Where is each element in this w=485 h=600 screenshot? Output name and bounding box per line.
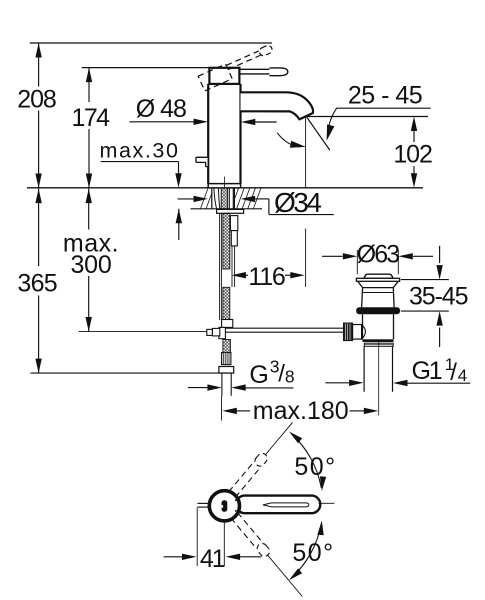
svg-text:116: 116 — [248, 263, 285, 291]
side port opening arc — [362, 325, 366, 340]
drain flange rim — [356, 278, 399, 281]
35-45 arrow down — [436, 265, 442, 280]
dimension 102 vertical — [413, 131, 415, 142]
max.180 right line — [350, 410, 365, 412]
G1 1/4 left tail — [325, 382, 349, 384]
ref line: spout outlet level — [306, 116, 428, 118]
35-45 arrow up — [436, 311, 442, 326]
drain washer ring — [364, 343, 393, 346]
drain cap dome — [364, 274, 393, 278]
braided hose segment 2 — [223, 287, 230, 319]
G3/8 left tail — [188, 387, 209, 389]
dimension 174 vertical line — [88, 68, 90, 102]
svg-text:50°: 50° — [292, 539, 334, 567]
max.180 arrow right-pointing — [364, 408, 379, 414]
rod connector sleeve — [219, 327, 226, 338]
ext line: spout outlet upper segment — [305, 117, 307, 189]
drain O-ring seal — [356, 307, 400, 314]
tailpipe left wall — [363, 346, 365, 392]
drain upper body — [362, 288, 395, 308]
svg-text:Ø63: Ø63 — [357, 241, 400, 269]
svg-text:41: 41 — [200, 545, 225, 573]
drain lower body — [363, 314, 394, 339]
tailpipe right wall — [392, 346, 394, 392]
lever shaft solid — [239, 68, 271, 70]
counter bottom line — [191, 208, 263, 210]
Ø63 left tail — [322, 255, 343, 257]
counter hatching left of hole — [201, 188, 209, 209]
centerline tick right of lever tip — [319, 502, 335, 504]
knurled hose fitting — [222, 353, 231, 365]
upper arc arrowhead at diagonal — [289, 432, 302, 444]
25-45 underline — [336, 107, 430, 109]
pop-up rod knob — [196, 157, 208, 166]
max.180 left line — [237, 410, 251, 412]
spout — [241, 92, 314, 119]
41 arrow left-pointing — [226, 554, 241, 560]
dimension max.300 vertical line — [88, 189, 90, 230]
Ø63 arrow right-pointing — [343, 253, 358, 259]
G3/8 tube right wall — [230, 373, 232, 396]
Ø63 right tail — [413, 255, 433, 257]
horizontal pop-up rod bottom line — [225, 331, 343, 333]
max.30 underline — [101, 161, 179, 163]
top view rod stub left — [198, 502, 213, 504]
braided hose segment 1 — [223, 213, 230, 269]
rod end piece — [207, 329, 213, 335]
top view cartridge slot — [222, 500, 228, 512]
41 right tail — [240, 556, 262, 558]
116 arrow right-pointing — [290, 272, 305, 278]
41 arrow right-pointing — [182, 554, 197, 560]
ref line: pop-up rod level (max.300) — [79, 331, 207, 333]
25-45 leader curve — [328, 108, 337, 132]
pop-up rod right line — [220, 213, 222, 320]
side port body — [353, 325, 362, 340]
Ø63 ext line left — [356, 250, 358, 274]
lower 50deg arc arrow — [292, 524, 322, 578]
Ø48 leader line left — [129, 121, 195, 123]
25-45 leader arrowhead — [327, 124, 335, 140]
drain centerline — [378, 341, 380, 415]
max.30 vertical to counter — [178, 162, 180, 174]
flex hoses inside shank — [214, 188, 217, 209]
41 ext line left (rod tip) — [196, 508, 198, 567]
35-45 vertical upper — [439, 246, 441, 263]
Ø34 underline — [269, 214, 334, 216]
svg-text:300: 300 — [70, 251, 111, 279]
dimension 365 vertical line — [38, 189, 40, 266]
G3/8 label underline — [246, 387, 294, 389]
ext line: spout outlet lower segment — [305, 229, 307, 287]
faucet head — [209, 68, 239, 84]
upper 50deg arc arrow — [292, 434, 322, 488]
35-45 upper ref line — [401, 279, 449, 281]
41 left tail — [164, 556, 183, 558]
G3/8 arrow left-pointing — [231, 384, 246, 390]
max.30 arrow down at counter top — [175, 173, 181, 188]
mounting nut — [217, 209, 244, 213]
extension line to max.180 — [221, 396, 223, 421]
svg-text:Ø 48: Ø 48 — [136, 95, 186, 123]
svg-text:G1: G1 — [412, 357, 442, 385]
top view lever inner slot — [263, 503, 309, 507]
116 arrow left-pointing — [231, 272, 246, 278]
braided hose section in shank — [221, 188, 227, 209]
Ø48 tail line right side — [255, 121, 277, 123]
lower arc arrowhead at centerline — [317, 521, 323, 536]
top view lever — [236, 496, 320, 514]
lower arc arrowhead at diagonal — [289, 568, 302, 580]
upper arc arrowhead at centerline — [320, 476, 326, 491]
rod guide line in shank — [228, 188, 230, 209]
arc arrowhead at stream line — [290, 141, 306, 148]
Ø48 arrow left-pointing at body right edge — [241, 119, 256, 125]
Ø63 ext line right — [397, 250, 399, 274]
arrow up 365 — [35, 189, 41, 204]
counter hole left edge — [211, 188, 213, 209]
ref line: top of raised lever (208 dim) — [30, 42, 272, 44]
rod connector block — [212, 328, 219, 336]
arrow up 208 — [35, 43, 41, 58]
horizontal pop-up rod top line — [225, 327, 343, 329]
svg-text:G: G — [249, 361, 268, 389]
svg-text:max.30: max.30 — [99, 138, 179, 162]
braided hose segment 3 — [223, 340, 231, 353]
drain body bottom band — [363, 339, 394, 342]
rod clamp block — [222, 320, 233, 328]
svg-text:35-45: 35-45 — [409, 282, 468, 310]
Ø63 arrow left-pointing — [398, 253, 413, 259]
drain flange taper — [358, 281, 399, 287]
Ø34 right tail — [255, 198, 269, 200]
faucet centerline upper — [224, 177, 226, 188]
svg-text:max.180: max.180 — [253, 397, 349, 425]
hose fitting lower — [231, 231, 237, 246]
G1 1/4 arrow right-pointing at pipe — [349, 380, 364, 386]
base plate — [208, 184, 240, 188]
Ø34 step vertical — [268, 199, 270, 215]
max.30 lower tail — [178, 209, 180, 240]
svg-text:Ø34: Ø34 — [274, 187, 321, 218]
G3/8 tube left wall — [221, 373, 223, 396]
side port knurled cap — [343, 323, 352, 341]
thin tube right line — [234, 246, 236, 287]
svg-text:208: 208 — [17, 86, 56, 114]
G1 1/4 arrow left-pointing at pipe — [393, 380, 408, 386]
svg-text:102: 102 — [393, 141, 432, 169]
102 arrow down — [411, 173, 417, 188]
Ø34 left tail — [178, 198, 195, 200]
thin tube left line — [231, 246, 233, 287]
arrow down 174 — [86, 174, 92, 189]
dashed outline: lever raised position — [198, 44, 276, 91]
counter hole right edge — [233, 188, 235, 209]
svg-text:/: / — [450, 359, 457, 386]
counter top line — [27, 187, 423, 189]
svg-text:50°: 50° — [294, 453, 336, 481]
ref line: hose end level (365) — [31, 372, 231, 374]
faucet body left edge — [207, 84, 209, 184]
top view: dashed lever rotated down 50deg — [230, 512, 306, 600]
svg-text:4: 4 — [458, 366, 467, 385]
hose fitting upper — [230, 216, 237, 231]
washer mid line — [364, 344, 393, 346]
drain body ring line — [362, 292, 393, 294]
svg-text:25 - 45: 25 - 45 — [348, 82, 422, 110]
max.30 arrow up at counter bottom — [176, 209, 182, 224]
Ø48 arrow right-pointing at body left edge — [194, 119, 209, 125]
hinge dots — [235, 499, 237, 501]
svg-text:365: 365 — [17, 270, 57, 298]
Ø34 arrow right-pointing at hole — [194, 196, 209, 202]
arrow up 174 — [86, 68, 92, 83]
arrow up max.300 — [86, 189, 92, 204]
Ø34 arrow left-pointing at hole — [241, 196, 256, 202]
svg-text:8: 8 — [285, 367, 295, 387]
hex nut on hose — [219, 367, 234, 374]
flow adjust arc arrow — [277, 133, 299, 147]
arrow down max.300 — [86, 317, 92, 332]
ext line: faucet centre (top view) — [223, 522, 225, 567]
max.180 arrow left-pointing — [222, 408, 237, 414]
counter hatching right of hole — [234, 188, 238, 199]
arrow down 208 — [35, 174, 41, 189]
faucet body right edge — [239, 84, 241, 184]
35-45 lower ref line — [401, 310, 449, 312]
G1 1/4 label underline — [408, 382, 471, 384]
arrow down 365 — [35, 359, 41, 374]
102 arrow up — [411, 117, 417, 132]
pop-up rod left line — [219, 213, 221, 320]
35-45 vertical lower — [439, 328, 441, 348]
water stream direction line — [307, 117, 330, 150]
dimension 208 vertical line — [38, 43, 40, 87]
top view faucet body circle — [209, 491, 239, 521]
svg-text:174: 174 — [72, 104, 111, 132]
top view: dashed lever rotated up 50deg — [228, 419, 296, 497]
ref line: top of faucet head (174 dim) — [82, 67, 210, 69]
shank right inner line — [232, 188, 234, 209]
G3/8 arrow right-pointing — [207, 384, 222, 390]
lever paddle solid — [270, 68, 288, 76]
